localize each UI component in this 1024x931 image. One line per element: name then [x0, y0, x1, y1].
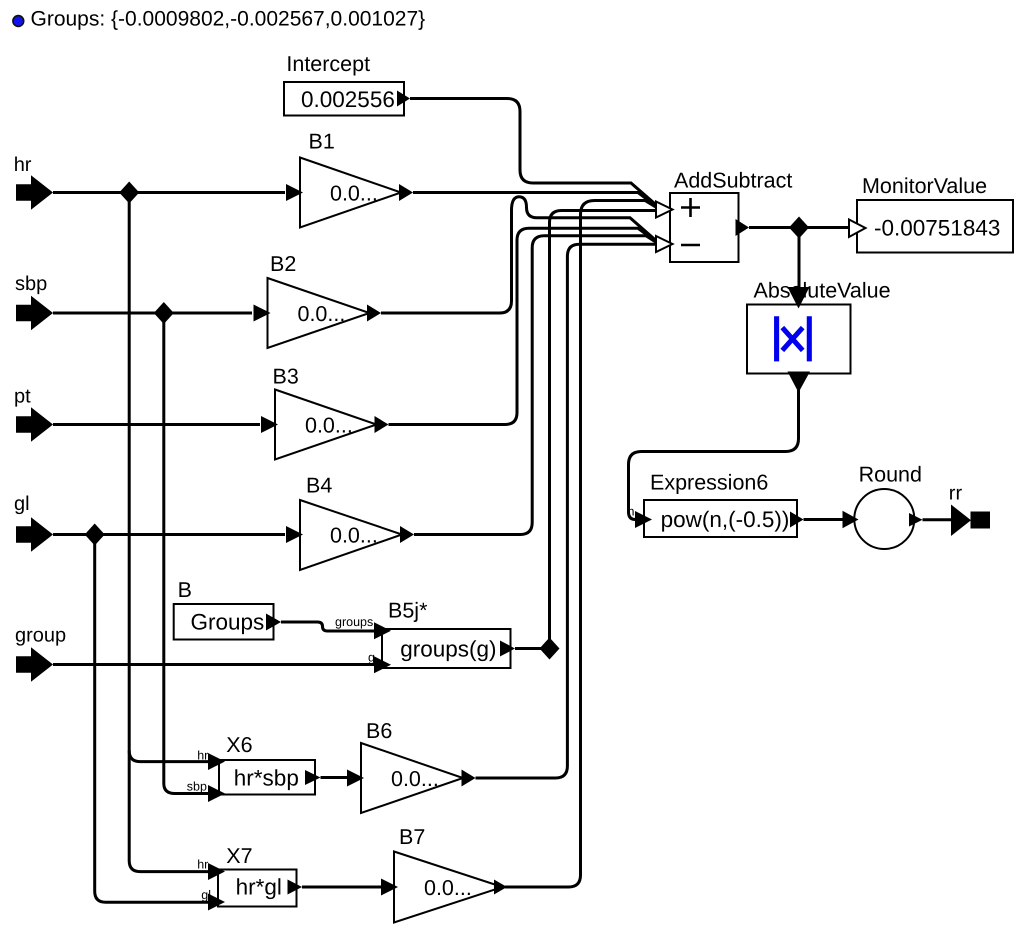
svg-text:MonitorValue: MonitorValue: [862, 174, 987, 198]
svg-text:0.0...: 0.0...: [391, 767, 439, 791]
svg-text:n: n: [628, 505, 635, 519]
svg-text:sbp: sbp: [15, 273, 47, 295]
svg-text:Groups: {-0.0009802,-0.002567,: Groups: {-0.0009802,-0.002567,0.001027}: [31, 7, 426, 30]
svg-text:AddSubtract: AddSubtract: [674, 169, 792, 193]
svg-text:0.0...: 0.0...: [330, 524, 378, 548]
svg-text:groups: groups: [335, 615, 373, 629]
svg-text:B: B: [178, 578, 192, 602]
svg-text:hr: hr: [197, 858, 208, 872]
svg-text:X6: X6: [226, 733, 252, 757]
svg-text:hr: hr: [197, 749, 208, 763]
svg-text:AbsoluteValue: AbsoluteValue: [754, 279, 891, 303]
svg-text:0.002556: 0.002556: [301, 87, 395, 112]
svg-text:hr: hr: [14, 154, 32, 176]
svg-text:group: group: [15, 625, 66, 647]
svg-text:Expression6: Expression6: [650, 471, 768, 495]
svg-text:hr*sbp: hr*sbp: [234, 766, 299, 791]
svg-text:B5j*: B5j*: [388, 599, 428, 623]
svg-text:sbp: sbp: [187, 780, 207, 794]
svg-text:-0.00751843: -0.00751843: [874, 216, 1000, 241]
svg-text:Groups: Groups: [191, 610, 265, 635]
svg-text:Round: Round: [859, 463, 922, 487]
svg-text:0.0...: 0.0...: [298, 302, 346, 326]
svg-text:rr: rr: [949, 482, 963, 504]
svg-text:B1: B1: [309, 130, 335, 154]
svg-text:0.0...: 0.0...: [330, 182, 378, 206]
svg-text:B2: B2: [270, 252, 296, 276]
svg-text:pow(n,(-0.5)): pow(n,(-0.5)): [661, 507, 790, 532]
svg-text:gl: gl: [14, 493, 30, 515]
svg-text:0.0...: 0.0...: [305, 414, 353, 438]
svg-text:pt: pt: [14, 386, 31, 408]
svg-text:0.0...: 0.0...: [424, 876, 472, 900]
svg-text:gl: gl: [201, 888, 211, 902]
svg-text:B6: B6: [366, 719, 392, 743]
svg-text:g: g: [368, 651, 375, 665]
svg-text:X7: X7: [226, 844, 252, 868]
svg-text:hr*gl: hr*gl: [236, 875, 282, 900]
svg-text:B3: B3: [273, 365, 299, 389]
svg-text:Intercept: Intercept: [286, 52, 370, 76]
svg-text:groups(g): groups(g): [400, 637, 496, 662]
svg-text:B7: B7: [399, 825, 425, 849]
svg-text:B4: B4: [306, 474, 332, 498]
